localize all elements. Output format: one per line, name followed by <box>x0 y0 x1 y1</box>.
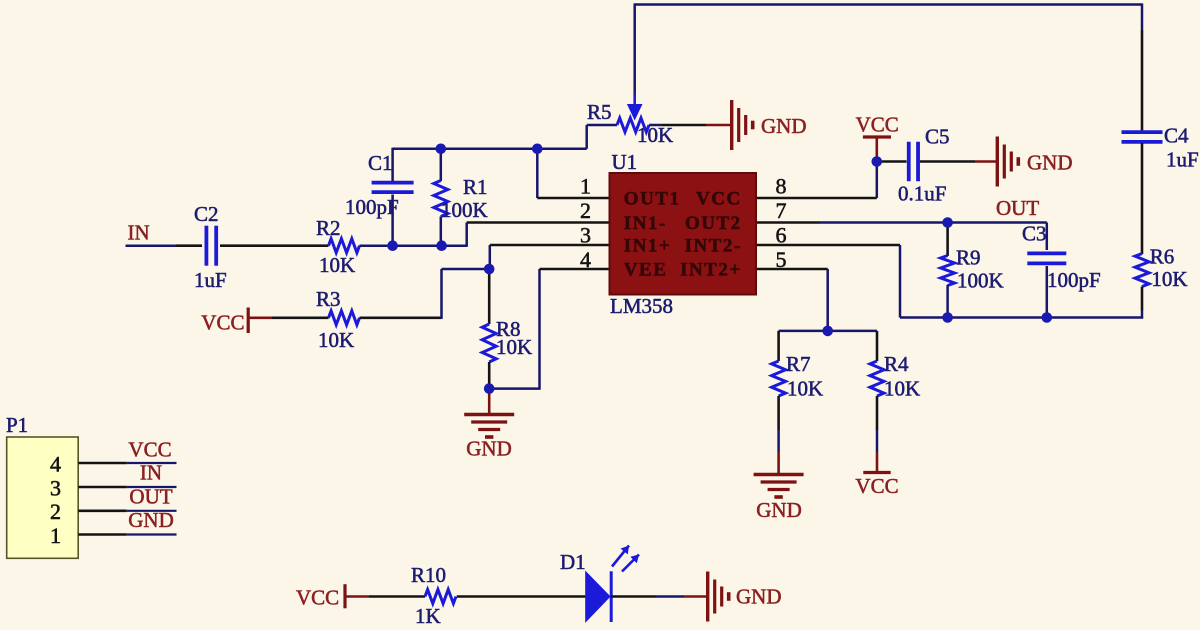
svg-text:10K: 10K <box>637 123 673 147</box>
svg-text:C5: C5 <box>925 125 950 149</box>
svg-text:1uF: 1uF <box>194 268 227 292</box>
svg-text:VEE: VEE <box>624 260 668 281</box>
svg-text:5: 5 <box>776 247 787 272</box>
svg-text:P1: P1 <box>6 413 28 437</box>
svg-text:8: 8 <box>776 174 787 199</box>
svg-text:IN: IN <box>140 461 162 485</box>
svg-text:GND: GND <box>128 508 174 532</box>
svg-text:0.1uF: 0.1uF <box>898 182 946 206</box>
svg-text:1: 1 <box>50 523 61 548</box>
svg-text:4: 4 <box>50 452 61 477</box>
svg-text:3: 3 <box>580 223 591 248</box>
svg-text:GND: GND <box>761 114 807 138</box>
svg-text:4: 4 <box>580 247 591 272</box>
svg-text:D1: D1 <box>560 550 586 574</box>
svg-text:R3: R3 <box>316 287 341 311</box>
svg-text:VCC: VCC <box>201 311 244 335</box>
svg-text:10K: 10K <box>1151 267 1187 291</box>
svg-text:1K: 1K <box>415 604 441 628</box>
svg-text:100pF: 100pF <box>345 195 399 219</box>
svg-text:OUT1: OUT1 <box>624 189 681 210</box>
svg-text:IN: IN <box>128 221 150 245</box>
svg-text:GND: GND <box>736 585 782 609</box>
svg-text:LM358: LM358 <box>610 294 673 318</box>
svg-text:10K: 10K <box>884 377 920 401</box>
svg-text:100K: 100K <box>957 269 1004 293</box>
svg-text:C1: C1 <box>368 151 393 175</box>
svg-text:OUT: OUT <box>996 196 1039 220</box>
svg-text:6: 6 <box>776 223 787 248</box>
svg-text:1uF: 1uF <box>1166 148 1199 172</box>
svg-text:R4: R4 <box>884 352 909 376</box>
svg-text:VCC: VCC <box>296 586 339 610</box>
svg-text:R10: R10 <box>411 563 446 587</box>
svg-text:10K: 10K <box>787 377 823 401</box>
svg-text:10K: 10K <box>318 328 354 352</box>
svg-text:R6: R6 <box>1150 245 1175 269</box>
svg-text:IN1+: IN1+ <box>624 236 671 257</box>
svg-text:VCC: VCC <box>856 113 899 137</box>
svg-text:2: 2 <box>50 499 61 524</box>
svg-text:10K: 10K <box>319 253 355 277</box>
svg-text:C4: C4 <box>1164 124 1189 148</box>
svg-text:IN1-: IN1- <box>624 213 667 234</box>
svg-text:3: 3 <box>50 475 61 500</box>
svg-text:2: 2 <box>580 198 591 223</box>
svg-text:10K: 10K <box>496 335 532 359</box>
svg-text:100pF: 100pF <box>1047 268 1101 292</box>
svg-text:OUT2: OUT2 <box>685 213 742 234</box>
svg-text:VCC: VCC <box>855 474 898 498</box>
svg-text:R7: R7 <box>786 352 811 376</box>
svg-text:INT2-: INT2- <box>685 236 742 257</box>
svg-text:INT2+: INT2+ <box>680 260 742 281</box>
svg-text:R9: R9 <box>956 246 981 270</box>
svg-text:R5: R5 <box>587 100 612 124</box>
svg-text:R1: R1 <box>463 175 488 199</box>
svg-text:C2: C2 <box>194 202 219 226</box>
svg-text:100K: 100K <box>441 198 488 222</box>
svg-text:R2: R2 <box>316 216 341 240</box>
svg-text:7: 7 <box>776 198 787 223</box>
svg-text:C3: C3 <box>1022 222 1047 246</box>
svg-text:1: 1 <box>580 174 591 199</box>
svg-text:VCC: VCC <box>128 438 171 462</box>
svg-text:GND: GND <box>1027 151 1073 175</box>
svg-text:OUT: OUT <box>129 485 172 509</box>
svg-text:VCC: VCC <box>696 189 742 210</box>
svg-text:GND: GND <box>466 437 512 461</box>
svg-text:U1: U1 <box>612 150 638 174</box>
svg-text:GND: GND <box>756 498 802 522</box>
